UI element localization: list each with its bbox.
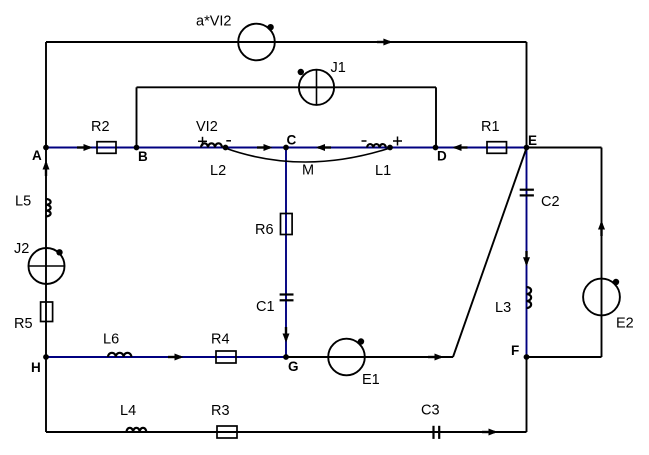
wire E right horizontal (527, 147, 602, 149)
wire B up (136, 87, 138, 147)
current source J1 (298, 60, 346, 105)
capacitor C1 (256, 295, 294, 316)
arrow H-G wire right (168, 354, 184, 361)
wire top-right vertical to E (526, 42, 528, 148)
svg-text:R4: R4 (211, 332, 230, 348)
resistor R4 (211, 332, 236, 364)
wire D up (435, 87, 437, 147)
capacitor C3 (421, 403, 440, 439)
wire E2 branch vertical (601, 148, 603, 358)
capacitor C2 (520, 190, 560, 210)
wire top horizontal (46, 41, 527, 43)
svg-text:C3: C3 (421, 403, 440, 419)
svg-text:R6: R6 (255, 222, 274, 238)
svg-text:L2: L2 (210, 163, 226, 179)
svg-text:L4: L4 (120, 403, 136, 419)
dependent source a*VI2 (196, 14, 275, 61)
inductor L1 (362, 137, 403, 180)
wire F down vertical (526, 357, 528, 432)
arrow left vertical below A pointing up (43, 161, 50, 177)
svg-text:F: F (511, 343, 519, 358)
wire F right horizontal (527, 356, 602, 358)
voltage source E1 (328, 338, 380, 388)
arrow E2 branch pointing up (598, 221, 605, 237)
resistor R5 (14, 302, 53, 332)
svg-text:R5: R5 (14, 316, 33, 332)
wire bottom horizontal (46, 431, 527, 433)
resistor R6 (255, 214, 292, 239)
inductor L3 (495, 287, 531, 316)
arrow main wire right of D pointing left (453, 144, 468, 151)
wire main horizontal A-E (blue) (46, 147, 527, 149)
mutual coupling arc M (225, 148, 390, 179)
svg-text:G: G (288, 359, 299, 374)
inductor L4 (120, 403, 146, 432)
arrow main wire right of C pointing left (316, 144, 331, 151)
arrow main wire left of C right (257, 144, 273, 151)
inductor L2 with VI2 label (196, 119, 231, 179)
svg-text:A: A (32, 148, 42, 163)
arrow top wire right (377, 39, 392, 46)
resistor R2 (91, 119, 116, 153)
svg-text:J2: J2 (14, 241, 29, 257)
wire H to G horizontal (blue) (46, 356, 286, 358)
arrow bottom wire right (482, 429, 498, 436)
svg-text:L3: L3 (495, 300, 511, 316)
svg-text:J1: J1 (331, 60, 346, 76)
node F (511, 343, 529, 360)
svg-text:C1: C1 (256, 299, 275, 315)
arrow G-E1 wire right (428, 354, 444, 361)
svg-text:R3: R3 (211, 403, 230, 419)
node D (433, 145, 447, 164)
svg-text:C2: C2 (541, 194, 560, 210)
svg-text:C: C (287, 133, 297, 148)
svg-text:H: H (31, 360, 41, 375)
wire E to F vertical (blue) (526, 148, 528, 358)
arrow C branch pointing down (283, 327, 290, 343)
svg-text:a*VI2: a*VI2 (196, 14, 231, 30)
node H (31, 354, 49, 375)
wire G to E1 horizontal (286, 356, 453, 358)
inductor L5 (15, 194, 51, 217)
node E (524, 133, 537, 150)
wire diagonal E1 corner to E (453, 148, 527, 357)
wire C down vertical (blue) (285, 148, 287, 358)
node B (134, 145, 148, 164)
svg-text:E1: E1 (362, 372, 380, 388)
svg-text:E2: E2 (616, 316, 634, 332)
svg-text:M: M (302, 163, 314, 179)
svg-text:L6: L6 (103, 332, 119, 348)
svg-text:L5: L5 (15, 194, 31, 210)
node C (283, 133, 296, 151)
inductor L6 (103, 332, 131, 358)
resistor R1 (481, 119, 507, 153)
svg-text:E: E (528, 133, 537, 148)
resistor R3 (211, 403, 237, 438)
svg-text:B: B (138, 149, 148, 164)
node A (32, 145, 49, 163)
svg-text:R2: R2 (91, 119, 110, 135)
arrow main wire near A right (77, 144, 93, 151)
svg-text:VI2: VI2 (196, 119, 218, 135)
arrow E branch pointing down (523, 251, 530, 266)
wire left vertical A-H outer (45, 42, 47, 432)
svg-text:R1: R1 (481, 119, 500, 135)
current source J2 (14, 241, 65, 284)
svg-text:D: D (437, 149, 447, 164)
wire J1 branch horizontal (137, 86, 437, 88)
voltage source E2 (583, 279, 634, 332)
svg-text:L1: L1 (375, 163, 391, 179)
node G (283, 354, 298, 374)
